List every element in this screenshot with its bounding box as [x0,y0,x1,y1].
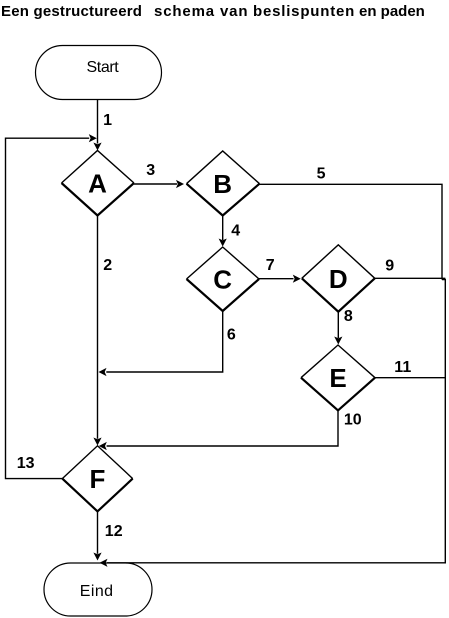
svg-text:10: 10 [344,411,362,428]
decision E [301,345,375,410]
svg-text:C: C [213,265,232,295]
svg-text:Een gestructureerd: Een gestructureerd [1,3,142,20]
wire 13 [6,134,97,479]
wire 3 [134,180,184,188]
wire 8 [334,312,342,345]
wire 10 [99,410,338,450]
wire 12 [93,511,101,560]
svg-text:4: 4 [231,222,240,239]
svg-text:6: 6 [227,326,236,343]
wire 6 [99,311,223,376]
svg-text:E: E [329,363,346,393]
svg-text:D: D [329,264,348,294]
decision D [302,245,375,312]
svg-text:Eind: Eind [80,583,114,600]
wire 2 [93,216,101,446]
wire 9 [375,277,446,279]
svg-text:5: 5 [317,165,326,182]
svg-text:13: 13 [17,455,35,472]
svg-text:Start: Start [87,59,120,76]
svg-text:12: 12 [105,523,123,540]
svg-text:3: 3 [146,162,155,179]
svg-text:A: A [88,169,107,199]
decision B [187,151,260,216]
decision C [187,247,260,311]
svg-text:en paden: en paden [359,3,425,20]
wire 4 [219,216,227,247]
decision A [62,151,135,216]
wire 1 [93,100,101,151]
terminator Start [36,46,162,100]
svg-text:8: 8 [344,308,353,325]
wire 7 [259,275,301,283]
svg-text:7: 7 [266,257,275,274]
svg-text:11: 11 [394,359,411,376]
svg-text:1: 1 [103,112,112,129]
title [1,3,425,20]
wire 11 [375,377,445,379]
arrow into Eind from rail [100,559,108,567]
svg-text:2: 2 [103,257,112,274]
right rail wire [107,280,445,563]
svg-text:F: F [90,464,106,494]
svg-text:schema van: schema van [154,3,248,20]
svg-text:beslispunten: beslispunten [253,3,355,20]
terminator Eind [44,563,152,616]
wire 5 [260,184,443,279]
decision F [62,446,132,512]
svg-text:B: B [213,169,232,199]
svg-text:9: 9 [385,257,394,274]
